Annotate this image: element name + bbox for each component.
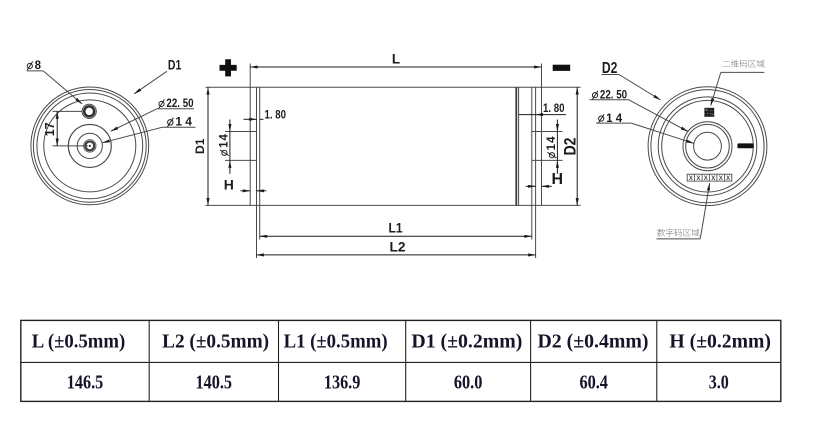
- label diameter-8 text: [27, 62, 33, 71]
- svg-text:H: H: [552, 171, 564, 188]
- right view outer circle: [648, 87, 767, 206]
- cell body bottom edge with D1/D2 extensions: [206, 204, 581, 206]
- label digit-code area underline: [657, 238, 701, 240]
- left face line: [249, 64, 251, 206]
- left view terminal mid circle d14: [77, 133, 102, 158]
- dimension d14 left extension lines: [225, 131, 257, 133]
- left view rim inner circle: [33, 89, 146, 202]
- svg-text:X: X: [726, 176, 730, 182]
- label diameter-22.50 left underline: [157, 108, 194, 110]
- left view terminal boss circle d22.5: [68, 124, 111, 167]
- svg-text:D1 (±0.2mm): D1 (±0.2mm): [411, 331, 522, 352]
- plus terminal symbol: [220, 59, 237, 76]
- right view rim inner circle: [651, 90, 764, 203]
- right face line: [541, 64, 543, 206]
- serial number cell separators: [695, 174, 725, 181]
- left view outer circle: [31, 87, 149, 205]
- svg-text:X: X: [696, 176, 700, 182]
- right cap line 2: [535, 87, 537, 258]
- left view inner shoulder circle: [44, 100, 136, 192]
- dimension H right arrows: [526, 185, 536, 187]
- label QR-code area leader arrow to QR mark: [711, 72, 721, 105]
- svg-text:17: 17: [43, 122, 57, 136]
- dimension d14 right extension lines: [532, 131, 563, 133]
- svg-text:L (±0.5mm): L (±0.5mm): [32, 331, 126, 352]
- svg-text:X: X: [711, 176, 715, 182]
- label diameter-8 underline: [27, 70, 43, 72]
- right view inner shoulder circle: [662, 100, 754, 192]
- serial number placeholder X characters: [689, 176, 730, 182]
- label diameter-22.50 right text: [592, 91, 598, 100]
- svg-text:L: L: [392, 52, 400, 67]
- svg-text:14: 14: [219, 134, 231, 148]
- svg-text:1. 80: 1. 80: [543, 103, 565, 115]
- table column separators: [149, 320, 657, 401]
- dimension d14 right line with outside arrows: [556, 120, 558, 132]
- svg-text:60.0: 60.0: [454, 373, 483, 394]
- left view centre dot: [89, 145, 91, 147]
- svg-text:L2: L2: [390, 239, 406, 255]
- svg-text:146.5: 146.5: [67, 373, 104, 394]
- right view boss inner circle d22.5: [686, 124, 730, 168]
- minus terminal symbol: [553, 65, 571, 71]
- svg-text:136.9: 136.9: [324, 373, 361, 394]
- serial number box: [687, 174, 732, 181]
- label diameter-14 left text: [167, 118, 173, 127]
- right view boss outer circle: [683, 122, 732, 171]
- table outer border: [21, 320, 781, 401]
- svg-text:X: X: [704, 176, 708, 182]
- left groove line 1: [256, 87, 258, 258]
- dimension L line: [250, 66, 541, 68]
- negative polarity bar on cap: [737, 143, 753, 148]
- left view crimp ring circle: [37, 93, 143, 199]
- label diameter-14 right leader arrow to centre circle: [631, 123, 693, 143]
- dimension 1.80 left line and arrow: [244, 118, 257, 120]
- left groove line 2: [259, 87, 261, 239]
- left view vent hole d8 outer circle: [82, 104, 96, 118]
- label QR-code area Chinese text: [723, 61, 731, 66]
- label D2 leader arrow to rim: [619, 75, 661, 101]
- left view vent hole dark ring: [84, 106, 94, 116]
- label diameter-14 right underline: [596, 122, 631, 124]
- svg-text:L2 (±0.5mm): L2 (±0.5mm): [162, 331, 269, 352]
- dimension H left arrows: [241, 190, 251, 192]
- label diameter-22.50 left leader arrow to boss: [111, 109, 157, 131]
- label diameter-14 left leader arrow to centre: [102, 127, 162, 143]
- label diameter-14 right text: [598, 114, 604, 123]
- label digit-code area leader arrow to serial box: [700, 183, 709, 239]
- cell body top edge with D1/D2 extensions: [206, 86, 581, 88]
- svg-text:H: H: [224, 176, 234, 192]
- dimension L1 line: [260, 235, 532, 237]
- label D2 underline: [602, 74, 620, 76]
- svg-text:X: X: [719, 176, 723, 182]
- dimension 17 bottom extension line: [53, 145, 89, 147]
- label diameter-8 leader arrow to vent hole: [43, 71, 82, 104]
- svg-text:D2 (±0.4mm): D2 (±0.4mm): [538, 331, 649, 352]
- right view centre circle d14: [694, 132, 722, 160]
- table row separator: [21, 361, 781, 363]
- right cap line 1: [531, 87, 533, 239]
- svg-text:8: 8: [35, 60, 42, 72]
- svg-text:D1: D1: [195, 138, 207, 154]
- left view centre stud ring: [85, 142, 94, 151]
- dimension D1 line: [207, 87, 209, 205]
- dimension d14 left rotated label: [219, 134, 231, 156]
- label QR-code area underline: [721, 71, 765, 73]
- label diameter-22.50 left text: [159, 100, 165, 109]
- svg-text:X: X: [689, 176, 693, 182]
- svg-text:1. 80: 1. 80: [265, 110, 287, 122]
- right crimp groove thick line: [515, 87, 517, 205]
- dimension d14 right rotated label: [546, 136, 558, 158]
- svg-text:14: 14: [546, 136, 558, 150]
- dimension L2 line: [257, 254, 536, 256]
- label digit-code area Chinese text: [657, 229, 665, 237]
- dimension 17 line with arrows: [56, 111, 58, 145]
- svg-text:L1: L1: [389, 220, 403, 236]
- dimension d14 left line with outside arrows: [229, 120, 231, 132]
- dimension D2 line: [576, 87, 578, 205]
- label diameter-22.50 right underline: [590, 99, 629, 101]
- svg-text:D1: D1: [168, 56, 182, 72]
- svg-text:L1 (±0.5mm): L1 (±0.5mm): [284, 331, 388, 352]
- dimension 17 top extension line: [53, 110, 83, 112]
- label diameter-14 left underline: [163, 126, 196, 128]
- svg-text:60.4: 60.4: [579, 373, 608, 394]
- right view crimp ring circle: [658, 97, 757, 196]
- svg-text:H (±0.2mm): H (±0.2mm): [669, 331, 771, 352]
- svg-text:3.0: 3.0: [709, 373, 729, 394]
- svg-text:D2: D2: [562, 138, 580, 156]
- label diameter-22.50 right leader arrow to boss: [629, 100, 689, 132]
- QR code mark: [704, 108, 714, 117]
- label D1 leader arrow to rim: [134, 71, 167, 94]
- svg-text:140.5: 140.5: [196, 373, 233, 394]
- right crimp groove thin line: [518, 87, 520, 205]
- dimension 1.80 right line and arrow: [519, 114, 536, 116]
